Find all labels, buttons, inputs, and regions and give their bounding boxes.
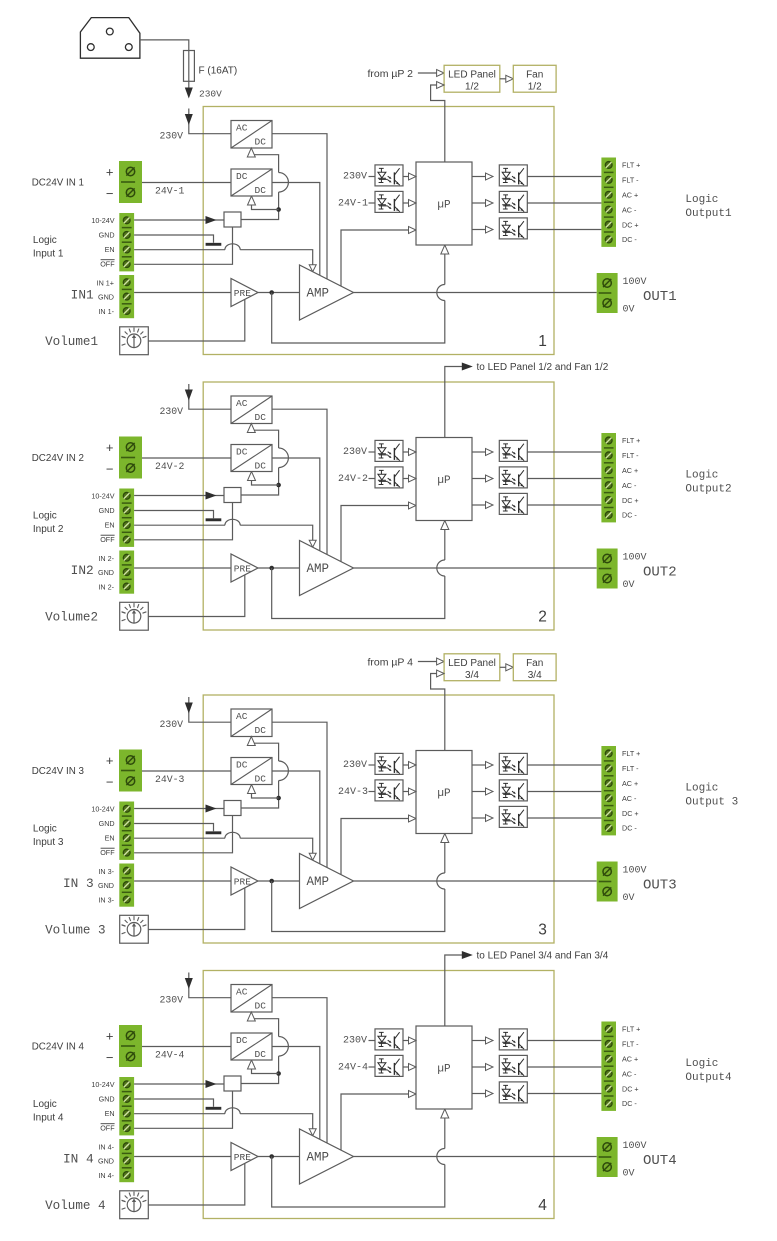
wire EN to AMP ch3 (hops OFF riser)	[134, 837, 225, 839]
terminal OUT 2	[597, 549, 618, 589]
svg-text:EN: EN	[105, 1109, 115, 1118]
wire 230V mains entry ch2	[189, 384, 231, 409]
svg-text:2: 2	[538, 609, 547, 626]
wire DC bus from below into AC/DC ch3	[251, 743, 278, 761]
svg-text:AC -: AC -	[622, 205, 637, 214]
svg-text:Volume 4: Volume 4	[45, 1199, 105, 1213]
optocoupler FLT output ch3	[499, 753, 527, 774]
svg-text:Logic: Logic	[33, 511, 57, 522]
arrowhead 230V down ch4	[185, 978, 193, 989]
arrowhead up into DC/DC ch3	[248, 785, 256, 794]
DC/DC converter ch2	[231, 445, 272, 472]
wire feedback from PRE junction to uP ch1	[272, 293, 445, 344]
wire opto to uP input 1 ch3	[403, 764, 410, 766]
arrowhead EN into AMP ch1	[309, 265, 316, 272]
svg-text:DC +: DC +	[622, 220, 639, 229]
wire OFF up to switch block ch1	[134, 227, 232, 264]
switch block ch2	[224, 488, 241, 503]
wire 10-24V into switch block ch3	[134, 808, 224, 810]
svg-text:EN: EN	[105, 834, 115, 843]
svg-text:10-24V: 10-24V	[91, 804, 114, 813]
svg-text:IN 1+: IN 1+	[97, 278, 114, 287]
svg-text:AMP: AMP	[307, 875, 330, 889]
wire AC/DC output to AMP rail ch4	[272, 998, 327, 1143]
arrowhead into output opto AC ch2	[486, 475, 494, 482]
arrowhead into uP input 1 ch4	[409, 1037, 417, 1044]
svg-text:230V: 230V	[199, 89, 222, 100]
potentiometer Volume 4	[120, 1191, 149, 1219]
svg-text:DC: DC	[236, 759, 248, 770]
arrowhead into uP input 1 ch1	[409, 173, 417, 180]
svg-text:OFF: OFF	[100, 535, 115, 544]
microprocessor uP ch3	[416, 751, 472, 834]
wire opto to uP input 1 ch4	[403, 1040, 410, 1042]
svg-text:24V-2: 24V-2	[155, 461, 185, 472]
svg-text:µP: µP	[437, 475, 451, 487]
arrowhead 230V down ch2	[185, 390, 193, 401]
svg-text:FLT +: FLT +	[622, 749, 640, 758]
svg-text:230V: 230V	[159, 406, 183, 417]
svg-text:IN2: IN2	[71, 563, 94, 578]
terminal DC24V IN 2	[119, 437, 142, 479]
wire hop over 24V rail ch4	[279, 1037, 289, 1057]
terminal Logic Output 3	[601, 746, 616, 835]
wire uP2 top riser to LED Panel arrow	[445, 367, 462, 438]
arrowhead into output opto FLT ch1	[486, 173, 494, 180]
svg-text:DC: DC	[255, 136, 267, 147]
power amplifier AMP ch3	[300, 854, 354, 909]
svg-text:10-24V: 10-24V	[91, 1080, 114, 1089]
wire uP output 1 ch4	[472, 1040, 487, 1042]
svg-text:GND: GND	[98, 568, 114, 577]
wire DC bus to DC/DC ch4	[252, 1062, 279, 1074]
svg-text:FLT +: FLT +	[622, 161, 640, 170]
arrowhead EN into AMP ch2	[309, 540, 316, 547]
arrowhead into LED Panel 1/2 (second input)	[437, 82, 445, 89]
wire AMP output to OUT2	[354, 567, 597, 569]
arrowhead 10-24V ch3	[206, 805, 217, 813]
svg-text:1/2: 1/2	[528, 81, 542, 92]
potentiometer Volume 1	[120, 327, 149, 355]
wire hop over 24V rail ch2	[279, 448, 289, 468]
wire uP output 3 ch3	[472, 817, 487, 819]
wire feedback from PRE junction to uP ch3	[272, 881, 445, 932]
svg-text:OFF: OFF	[100, 848, 115, 857]
AC/DC converter ch2	[231, 396, 272, 424]
svg-text:LED Panel: LED Panel	[448, 658, 496, 669]
svg-text:−: −	[106, 186, 114, 201]
wire opto to uP input 2 ch2	[403, 478, 410, 480]
wire uP output 2 ch3	[472, 791, 487, 793]
wire plug to fuse	[140, 40, 189, 51]
svg-text:Output4: Output4	[685, 1072, 732, 1084]
node DC bus junction ch3	[276, 796, 281, 801]
svg-text:24V-1: 24V-1	[155, 186, 185, 197]
svg-text:GND: GND	[99, 506, 115, 515]
arrowhead into uP input 1 ch3	[409, 762, 417, 769]
svg-text:1: 1	[538, 333, 547, 350]
arrowhead into output opto FLT ch3	[486, 762, 494, 769]
svg-text:+: +	[106, 440, 114, 455]
wire AMP output to OUT1	[354, 292, 597, 294]
svg-text:0V: 0V	[623, 893, 635, 904]
svg-text:AMP: AMP	[307, 1151, 330, 1165]
wire DC bus from below into AC/DC ch4	[251, 1019, 278, 1037]
svg-text:DC: DC	[255, 1000, 267, 1011]
node DC bus junction ch1	[276, 207, 281, 212]
arrowhead into LED Panel 1/2 (from uP)	[437, 70, 445, 77]
wire DC/DC output to AMP rail ch3	[272, 771, 320, 864]
potentiometer Volume 3	[120, 915, 149, 943]
arrowhead up into AC/DC ch2	[247, 424, 255, 433]
plug pin N	[125, 44, 132, 51]
svg-text:DC24V IN 2: DC24V IN 2	[32, 453, 84, 464]
arrowhead up into DC/DC ch2	[248, 472, 256, 481]
arrowhead 230V after fuse	[185, 88, 193, 99]
svg-text:−: −	[106, 775, 114, 790]
svg-text:Logic: Logic	[685, 194, 718, 206]
channel 3 enclosure box	[203, 695, 554, 943]
ground symbol ch3	[206, 831, 222, 834]
terminal IN 1	[119, 275, 134, 318]
block LED Panel 3/4	[444, 654, 500, 681]
optocoupler 230V sense ch1	[375, 165, 403, 186]
terminal Logic Output 1	[601, 158, 616, 247]
svg-text:to LED Panel 1/2 and Fan 1/2: to LED Panel 1/2 and Fan 1/2	[477, 362, 609, 373]
wire AMP sense to uP ch3	[341, 819, 410, 875]
switch block ch1	[224, 212, 241, 227]
optocoupler 230V sense ch2	[375, 440, 403, 461]
arrowhead into uP input 3 ch3	[409, 815, 417, 822]
ground symbol ch2	[206, 518, 222, 521]
svg-text:+: +	[106, 165, 114, 180]
arrowhead to LED Panel (solid)	[462, 951, 473, 959]
arrowhead into uP input 2 ch4	[409, 1064, 417, 1071]
terminal OUT 1	[597, 273, 618, 313]
microprocessor uP ch4	[416, 1026, 472, 1109]
wire hop over 24V rail ch3	[279, 761, 289, 781]
fuse F (16AT)	[184, 51, 195, 82]
wire opto FLT to Logic Output terminal ch2	[527, 451, 601, 453]
svg-text:FLT +: FLT +	[622, 436, 640, 445]
svg-text:230V: 230V	[159, 994, 183, 1005]
potentiometer Volume 2	[120, 602, 149, 630]
wire LED Panel 1/2 to Fan 1/2	[500, 78, 507, 80]
svg-text:DC24V IN 3: DC24V IN 3	[32, 766, 85, 777]
node DC bus junction ch2	[276, 483, 281, 488]
svg-text:DC: DC	[255, 460, 267, 471]
svg-text:µP: µP	[437, 200, 451, 212]
wire 24V rail to DC/DC ch1	[142, 182, 231, 184]
wire 230V mains entry ch1	[189, 109, 231, 134]
svg-text:230V: 230V	[343, 171, 367, 182]
svg-text:230V: 230V	[343, 760, 367, 771]
svg-text:Input 1: Input 1	[33, 249, 64, 260]
wire audio input to PRE ch3	[134, 880, 231, 882]
svg-text:IN 2-: IN 2-	[98, 583, 114, 592]
wire uP output 2 ch1	[472, 202, 487, 204]
arrowhead into uP input 2 ch2	[409, 475, 417, 482]
svg-text:230V: 230V	[343, 447, 367, 458]
wire 10-24V into switch block ch4	[134, 1083, 224, 1085]
arrowhead into uP input 2 ch1	[409, 200, 417, 207]
svg-text:µP: µP	[437, 1064, 451, 1076]
optocoupler 24V sense ch4	[375, 1055, 403, 1076]
svg-text:24V-1: 24V-1	[338, 199, 368, 210]
svg-text:Volume2: Volume2	[45, 610, 98, 624]
wire OFF up to switch block ch4	[134, 1091, 232, 1128]
wire opto FLT to Logic Output terminal ch3	[527, 764, 601, 766]
wire opto FLT to Logic Output terminal ch4	[527, 1040, 601, 1042]
svg-text:DC: DC	[236, 446, 248, 457]
svg-text:OUT4: OUT4	[643, 1153, 677, 1169]
wire fuse to 230V arrow	[188, 81, 190, 93]
terminal DC24V IN 1	[119, 161, 142, 203]
arrowhead into uP input 3 ch1	[409, 227, 417, 234]
arrowhead up into uP bottom ch2	[441, 521, 449, 530]
wire volume to PRE ch4	[148, 1163, 245, 1205]
arrowhead into output opto FLT ch2	[486, 449, 494, 456]
wire GND to signal ground ch4	[134, 1099, 213, 1107]
optocoupler 230V sense ch4	[375, 1029, 403, 1050]
svg-text:100V: 100V	[623, 277, 647, 288]
wire 230V label to optocoupler ch1	[369, 176, 376, 178]
arrowhead 10-24V ch1	[206, 216, 217, 224]
svg-text:OUT1: OUT1	[643, 289, 677, 305]
wire opto DC to Logic Output terminal ch3	[527, 817, 601, 819]
svg-text:Output2: Output2	[685, 484, 731, 496]
optocoupler FLT output ch2	[499, 440, 527, 461]
arrowhead up into AC/DC ch4	[247, 1012, 255, 1021]
optocoupler DC output ch1	[499, 218, 527, 239]
arrowhead into LED Panel 3/4 (from uP)	[437, 658, 445, 665]
svg-text:+: +	[106, 753, 114, 768]
arrowhead into output opto DC ch2	[486, 502, 494, 509]
svg-text:−: −	[106, 1050, 114, 1065]
wire AMP sense to uP ch4	[341, 1094, 410, 1150]
power amplifier AMP ch1	[300, 265, 354, 320]
arrowhead 10-24V ch4	[206, 1080, 217, 1088]
wire 24V label to optocoupler ch2	[369, 478, 376, 480]
svg-text:from µP 4: from µP 4	[367, 656, 413, 668]
svg-text:OFF: OFF	[100, 260, 115, 269]
svg-text:PRE: PRE	[234, 288, 251, 299]
wire 24V rail to DC/DC ch4	[142, 1046, 231, 1048]
wire hop feedback over output ch1	[437, 285, 445, 301]
wire uP output 2 ch2	[472, 478, 487, 480]
wire AC/DC output to AMP rail ch3	[272, 722, 327, 867]
node PRE output junction ch2	[269, 566, 274, 571]
channel 2 enclosure box	[203, 382, 554, 630]
svg-text:IN 3-: IN 3-	[98, 867, 114, 876]
svg-text:Logic: Logic	[685, 470, 718, 482]
svg-text:EN: EN	[105, 245, 115, 254]
wire AC/DC output to AMP rail ch2	[272, 409, 327, 554]
svg-text:Volume1: Volume1	[45, 335, 98, 349]
wire EN to AMP ch1 (hops OFF riser)	[134, 249, 225, 251]
terminal DC24V IN 3	[119, 750, 142, 792]
svg-text:Input 4: Input 4	[33, 1113, 64, 1124]
svg-text:DC: DC	[255, 412, 267, 423]
svg-text:DC: DC	[236, 1035, 248, 1046]
AC/DC converter ch1	[231, 121, 272, 149]
wire uP output 3 ch2	[472, 504, 487, 506]
arrowhead into uP input 2 ch3	[409, 788, 417, 795]
wire feedback from PRE junction to uP ch4	[272, 1157, 445, 1208]
wire DC/DC output to AMP rail ch4	[272, 1047, 320, 1140]
power amplifier AMP ch4	[300, 1129, 354, 1184]
arrowhead EN into AMP ch4	[309, 1129, 316, 1136]
svg-text:AC +: AC +	[622, 191, 638, 200]
switch block ch4	[224, 1076, 241, 1091]
svg-text:GND: GND	[98, 292, 114, 301]
pre-amplifier PRE ch4	[231, 1143, 258, 1171]
svg-text:IN 1-: IN 1-	[98, 307, 114, 316]
wire from &#181;P 4 to LED Panel	[418, 661, 438, 663]
wire DC bus to DC/DC ch1	[252, 198, 279, 210]
wire 24V label to optocoupler ch1	[369, 202, 376, 204]
DC/DC converter ch3	[231, 758, 272, 785]
wire AMP output to OUT3	[354, 880, 597, 882]
svg-text:GND: GND	[99, 1095, 115, 1104]
svg-text:OFF: OFF	[100, 1124, 115, 1133]
block Fan 1/2	[513, 65, 556, 92]
svg-text:Volume 3: Volume 3	[45, 923, 105, 937]
arrowhead 10-24V ch2	[206, 492, 217, 500]
wire opto to uP input 2 ch3	[403, 791, 410, 793]
arrowhead to LED Panel (solid)	[462, 363, 473, 371]
optocoupler 24V sense ch3	[375, 780, 403, 801]
svg-text:GND: GND	[98, 1156, 114, 1165]
wire from &#181;P 2 to LED Panel	[418, 72, 438, 74]
svg-text:IN1: IN1	[71, 287, 94, 302]
wire 24V rail to DC/DC ch2	[142, 457, 231, 459]
wire 10-24V into switch block ch1	[134, 219, 224, 221]
wire PRE to AMP ch3	[258, 880, 300, 882]
wire 230V label to optocoupler ch2	[369, 451, 376, 453]
svg-text:DC -: DC -	[622, 824, 637, 833]
svg-text:IN 4-: IN 4-	[98, 1171, 114, 1180]
svg-text:100V: 100V	[623, 553, 647, 564]
terminal Logic Input 4	[119, 1077, 134, 1135]
svg-text:DC +: DC +	[622, 496, 639, 505]
node PRE output junction ch1	[269, 290, 274, 295]
switch block ch3	[224, 801, 241, 816]
svg-text:Logic: Logic	[33, 235, 57, 246]
wire OFF up to switch block ch3	[134, 816, 232, 853]
svg-text:DC -: DC -	[622, 235, 637, 244]
DC/DC converter ch1	[231, 169, 272, 196]
svg-text:Logic: Logic	[33, 1099, 57, 1110]
optocoupler 24V sense ch2	[375, 467, 403, 488]
optocoupler FLT output ch1	[499, 165, 527, 186]
terminal Logic Input 1	[119, 213, 134, 271]
wire 230V mains entry ch3	[189, 697, 231, 722]
terminal IN 2	[119, 551, 134, 594]
svg-text:Fan: Fan	[526, 658, 543, 669]
arrowhead into uP input 3 ch4	[409, 1091, 417, 1098]
wire 230V mains entry ch4	[189, 973, 231, 998]
wire AMP output to OUT4	[354, 1156, 597, 1158]
wire DC bus to DC/DC ch3	[252, 786, 279, 798]
wire opto DC to Logic Output terminal ch4	[527, 1093, 601, 1095]
svg-text:10-24V: 10-24V	[91, 491, 114, 500]
wire DC bus to DC/DC ch2	[252, 473, 279, 485]
svg-text:DC -: DC -	[622, 511, 637, 520]
svg-text:AC +: AC +	[622, 779, 638, 788]
wire uP1 top riser to LED Panel 1/2	[431, 85, 445, 162]
wire AMP sense to uP ch1	[341, 230, 410, 286]
svg-text:DC24V IN 4: DC24V IN 4	[32, 1042, 85, 1053]
svg-text:AC -: AC -	[622, 1069, 637, 1078]
wire LED Panel 3/4 to Fan 3/4	[500, 666, 507, 668]
svg-text:DC: DC	[236, 171, 248, 182]
svg-text:100V: 100V	[623, 1141, 647, 1152]
wire GND to signal ground ch1	[134, 235, 213, 243]
arrowhead up into uP bottom ch3	[441, 834, 449, 843]
ground symbol ch1	[206, 243, 222, 246]
wire opto AC to Logic Output terminal ch3	[527, 791, 601, 793]
svg-text:Input 3: Input 3	[33, 837, 64, 848]
block Fan 3/4	[513, 654, 556, 681]
optocoupler DC output ch2	[499, 493, 527, 514]
svg-text:OUT2: OUT2	[643, 565, 677, 581]
svg-text:to LED Panel 3/4 and Fan 3/4: to LED Panel 3/4 and Fan 3/4	[477, 951, 609, 962]
svg-text:24V-4: 24V-4	[155, 1050, 185, 1061]
svg-text:10-24V: 10-24V	[91, 216, 114, 225]
svg-text:AC -: AC -	[622, 481, 637, 490]
wire hop feedback over output ch4	[437, 1149, 445, 1165]
svg-text:AC +: AC +	[622, 466, 638, 475]
svg-text:DC24V IN 1: DC24V IN 1	[32, 178, 84, 189]
svg-text:µP: µP	[437, 788, 451, 800]
svg-text:Output1: Output1	[685, 208, 732, 220]
svg-text:GND: GND	[99, 819, 115, 828]
wire opto DC to Logic Output terminal ch1	[527, 229, 601, 231]
wire opto to uP input 1 ch2	[403, 451, 410, 453]
arrowhead 230V down ch1	[185, 114, 193, 125]
wire feedback from PRE junction to uP ch2	[272, 568, 445, 619]
svg-text:PRE: PRE	[234, 1152, 251, 1163]
microprocessor uP ch2	[416, 438, 472, 521]
terminal IN 4	[119, 1139, 134, 1182]
wire PRE to AMP ch2	[258, 567, 300, 569]
svg-text:3/4: 3/4	[465, 670, 479, 681]
arrowhead into output opto DC ch3	[486, 815, 494, 822]
terminal IN 3	[119, 864, 134, 907]
svg-text:Logic: Logic	[685, 783, 718, 795]
wire volume to PRE ch3	[148, 888, 245, 930]
plug pin earth	[106, 28, 113, 35]
arrowhead up into uP bottom ch1	[441, 245, 449, 254]
optocoupler 24V sense ch1	[375, 191, 403, 212]
wire AC/DC output to AMP rail ch1	[272, 134, 327, 279]
svg-text:F (16AT): F (16AT)	[199, 66, 238, 77]
svg-text:0V: 0V	[623, 1169, 635, 1180]
arrowhead into uP input 1 ch2	[409, 449, 417, 456]
terminal Logic Output 4	[601, 1022, 616, 1111]
wire DC bus from below into AC/DC ch2	[251, 430, 278, 448]
svg-text:DC: DC	[255, 1049, 267, 1060]
arrowhead EN into AMP ch3	[309, 853, 316, 860]
optocoupler AC output ch3	[499, 780, 527, 801]
svg-text:LED Panel: LED Panel	[448, 70, 496, 81]
wire hop over 24V rail ch1	[279, 173, 289, 193]
svg-text:Input 2: Input 2	[33, 524, 64, 535]
wire uP output 3 ch4	[472, 1093, 487, 1095]
mains plug	[80, 18, 139, 59]
arrowhead into LED Panel 3/4 (second input)	[437, 670, 445, 677]
